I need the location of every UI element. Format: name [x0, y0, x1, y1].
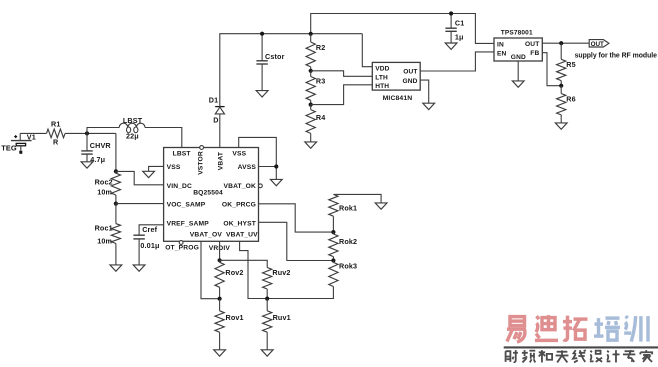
pin OT_PROG (unconnected) [179, 241, 183, 245]
wire VBAT pin to D1 [219, 114, 221, 148]
wire Rok1 top to ground [333, 194, 381, 203]
wire TPS OUT [542, 42, 589, 44]
ground CHVR [81, 162, 93, 168]
svg-text:GND: GND [511, 54, 526, 61]
svg-text:VBAT_UV: VBAT_UV [226, 231, 258, 238]
node Cstor [260, 32, 264, 36]
svg-text:LBST: LBST [173, 150, 192, 157]
svg-text:VREF_SAMP: VREF_SAMP [167, 221, 210, 228]
port OUT flag [589, 40, 609, 48]
svg-text:Cref: Cref [142, 225, 157, 234]
svg-text:VBAT: VBAT [218, 151, 225, 170]
svg-text:LTH: LTH [375, 75, 388, 82]
svg-text:R3: R3 [316, 76, 326, 85]
node R3/R4 junction [309, 103, 313, 107]
wire V1 to R1 [20, 132, 46, 134]
svg-text:CHVR: CHVR [90, 141, 112, 150]
svg-text:C1: C1 [455, 18, 465, 27]
svg-text:supply for the RF module: supply for the RF module [575, 52, 658, 59]
wire OK_HYST [259, 222, 334, 260]
svg-text:22μ: 22μ [126, 132, 139, 141]
svg-text:10m: 10m [97, 236, 112, 245]
wire VSTOR to TPS IN (top rail) [311, 14, 494, 44]
node VIN (R1/CHVR/LBST junction) [85, 131, 89, 135]
svg-text:OUT: OUT [403, 69, 417, 76]
resistor Rok2 [329, 232, 357, 260]
wire MIC GND [420, 80, 429, 103]
wire D1 to VSTOR rail [220, 34, 362, 107]
node R2/R3 junction [309, 69, 313, 73]
wire LTH [311, 71, 373, 77]
wire VIN_DC [116, 171, 164, 184]
ground Roc1 [110, 265, 122, 271]
ground Ruv1 [261, 350, 273, 356]
svg-text:VBAT_OV: VBAT_OV [190, 231, 223, 238]
svg-text:R: R [53, 138, 59, 147]
svg-text:D1: D1 [209, 96, 219, 105]
ground Cstor [256, 91, 268, 97]
label supply for the RF module [575, 52, 658, 59]
svg-text:R6: R6 [566, 95, 576, 104]
svg-text:BQ25504: BQ25504 [193, 189, 223, 196]
node AVSS [274, 164, 278, 168]
ground R4 [305, 142, 317, 148]
svg-text:AVSS: AVSS [238, 164, 257, 171]
wire LBST to BQ25504 LBST pin [145, 128, 182, 148]
svg-text:0.01μ: 0.01μ [140, 241, 159, 250]
svg-text:VSS: VSS [232, 150, 246, 157]
resistor Roc2 [95, 171, 121, 203]
svg-text:GND: GND [402, 78, 417, 85]
svg-text:Rok3: Rok3 [339, 262, 357, 271]
node Ruv1 top [265, 297, 269, 301]
svg-text:Roc2: Roc2 [95, 178, 113, 187]
wire node to LBST [87, 128, 119, 134]
node Rok2/Rok3 junction [331, 258, 335, 262]
ground Rov1 [214, 350, 226, 356]
node Rok1/Rok2 junction [331, 230, 335, 234]
svg-text:EN: EN [497, 50, 507, 57]
resistor Ruv2 [263, 268, 291, 299]
wire node to Roc2 [115, 133, 117, 171]
watermark tagline 射频和天线设计专家 [506, 350, 653, 362]
wire MIC OUT to TPS EN [420, 52, 494, 71]
svg-text:Rok1: Rok1 [339, 204, 357, 213]
node Roc1 top / VOC_SAMP [114, 202, 118, 206]
capacitor CHVR [81, 133, 111, 164]
svg-text:Ruv1: Ruv1 [273, 313, 291, 322]
wire OK_PRCG [259, 204, 334, 232]
wire R1 to input node [65, 132, 116, 134]
svg-text:10m: 10m [97, 187, 112, 196]
node Rov1 top [218, 297, 222, 301]
diode D1 [209, 96, 225, 125]
wire VBAT_OV to Rov junction [201, 241, 220, 298]
resistor R2 [306, 34, 325, 71]
svg-text:R1: R1 [51, 119, 61, 128]
capacitor Cref [133, 225, 159, 265]
wire HTH [311, 85, 373, 105]
svg-text:1μ: 1μ [455, 32, 464, 41]
wire VOC_SAMP [116, 203, 164, 205]
svg-text:R2: R2 [316, 43, 326, 52]
svg-text:Rov1: Rov1 [226, 313, 244, 322]
wire FB [542, 53, 561, 86]
wire VRDIV [219, 241, 221, 260]
svg-text:OUT: OUT [525, 41, 539, 48]
resistor Rok3 [329, 261, 357, 287]
pin VBAT_OK (unconnected) [259, 184, 263, 188]
wire TPS GND [517, 61, 519, 81]
svg-text:OK_PRCG: OK_PRCG [222, 201, 256, 208]
svg-text:VOC_SAMP: VOC_SAMP [167, 201, 206, 208]
svg-text:VBAT_OK: VBAT_OK [223, 183, 256, 190]
capacitor C1 [445, 14, 464, 44]
svg-text:MIC841N: MIC841N [383, 95, 413, 102]
svg-text:VIN_DC: VIN_DC [167, 183, 192, 190]
svg-text:IN: IN [497, 42, 504, 49]
op-amp U1 BQ25504 IC body [164, 148, 259, 253]
node VRDIV [218, 258, 222, 262]
svg-text:VDD: VDD [375, 65, 389, 72]
resistor Rov2 [215, 260, 244, 298]
wire VREF_SAMP [139, 225, 164, 235]
ground R6 [555, 123, 567, 129]
svg-text:LBST: LBST [123, 116, 143, 125]
wire VSS top to AVSS [239, 137, 277, 179]
svg-text:Roc1: Roc1 [95, 223, 113, 232]
svg-text:D: D [213, 115, 218, 124]
resistor R6 [557, 86, 576, 123]
ground Cref [133, 265, 145, 271]
ground TPS78001 [512, 81, 524, 87]
wire AVSS [259, 166, 277, 168]
resistor Rok1 [329, 194, 357, 232]
ground VSS left [143, 171, 155, 177]
ground AVSS [270, 179, 282, 185]
svg-text:OT_PROG: OT_PROG [165, 245, 199, 252]
resistor R4 [306, 105, 325, 142]
ground C1 [445, 43, 457, 49]
wire VBAT_UV to Ruv junction and Rok3 bottom [240, 241, 334, 298]
voltage source V1 (TEG thermogenerator) [1, 132, 36, 153]
svg-text:R4: R4 [316, 113, 326, 122]
node OUT / R5 top [559, 41, 563, 45]
svg-text:Ruv2: Ruv2 [272, 268, 290, 277]
op-amp U2 MIC841N comparator [372, 62, 420, 102]
node rail junction R2 top [309, 32, 313, 36]
resistor Ruv1 [263, 299, 291, 350]
ground MIC841N [423, 103, 435, 109]
inductor LBST 22u [119, 116, 145, 141]
node Roc2 top [114, 169, 118, 173]
svg-text:VSS: VSS [167, 164, 181, 171]
svg-text:OUT: OUT [591, 41, 604, 48]
node C1 [449, 11, 453, 15]
ground Rok1 [375, 203, 387, 209]
svg-text:VSTOR: VSTOR [198, 151, 205, 175]
capacitor Cstor [256, 34, 284, 91]
resistor R3 [306, 71, 325, 105]
svg-text:OK_HYST: OK_HYST [223, 221, 256, 228]
svg-text:TPS78001: TPS78001 [501, 29, 533, 36]
wire VRDIV to Ruv2 [220, 260, 268, 267]
svg-text:Rov2: Rov2 [225, 268, 243, 277]
wire VSS left to ground [149, 166, 164, 171]
pin VSTOR (unconnected) [200, 146, 204, 150]
resistor R1 [47, 119, 66, 146]
watermark logo text 易迪拓培训 [507, 315, 648, 342]
wire VDD [362, 34, 372, 67]
resistor Rov1 [215, 299, 244, 350]
watermark underline [504, 346, 658, 348]
node FB / R5 / R6 [559, 84, 563, 88]
resistor Roc1 [95, 204, 121, 265]
svg-text:Rok2: Rok2 [339, 237, 357, 246]
svg-text:Cstor: Cstor [265, 52, 285, 61]
op-amp U3 TPS78001 LDO [494, 29, 542, 61]
svg-text:HTH: HTH [375, 83, 389, 90]
svg-text:FB: FB [530, 50, 539, 57]
svg-text:R5: R5 [566, 60, 576, 69]
svg-text:TEG: TEG [1, 144, 17, 153]
resistor R5 [557, 43, 576, 85]
